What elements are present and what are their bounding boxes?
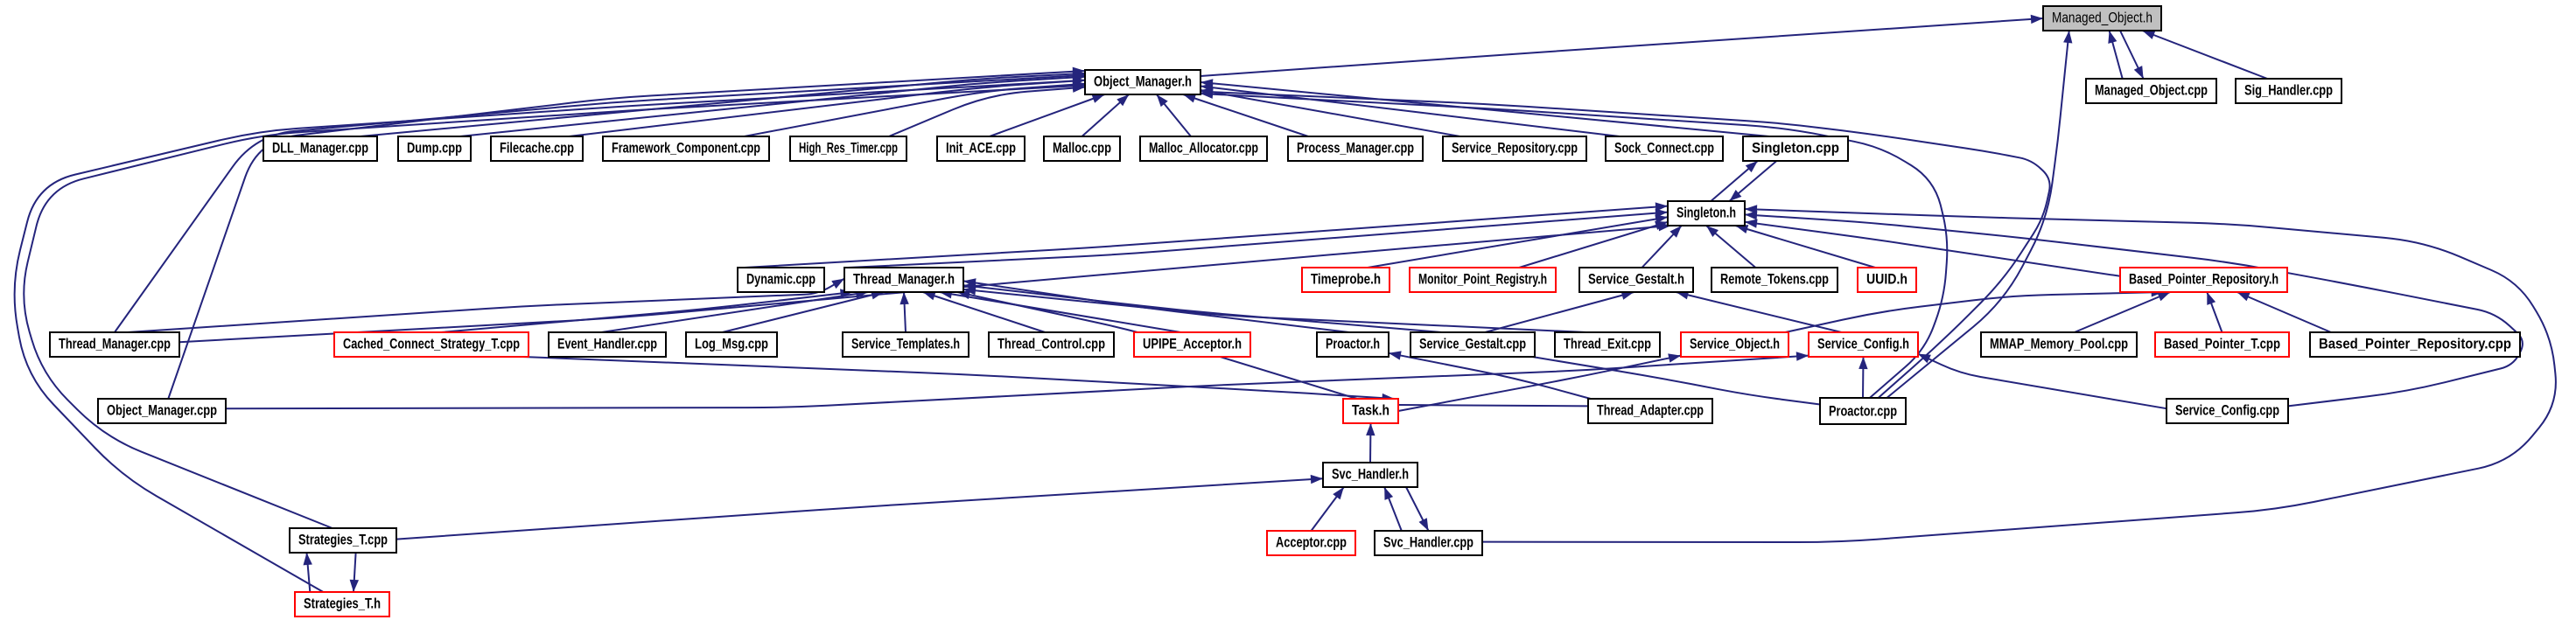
node Proactor.cpp — [1820, 398, 1906, 424]
svg-text:Task.h: Task.h — [1352, 402, 1389, 419]
svg-text:Cached_Connect_Strategy_T.cpp: Cached_Connect_Strategy_T.cpp — [343, 336, 520, 352]
svg-text:Event_Handler.cpp: Event_Handler.cpp — [557, 336, 657, 352]
svg-text:Singleton.cpp: Singleton.cpp — [1752, 140, 1839, 157]
wire Strategies_T.cpp to Svc_Handler.h — [396, 475, 1323, 540]
wire Managed_Object.h to Managed_Object.cpp — [2120, 31, 2144, 79]
node UUID.h — [1858, 268, 1916, 292]
wire Service_Gestalt.cpp to Thread_Manager.h — [963, 282, 1442, 332]
svg-text:Singleton.h: Singleton.h — [1676, 205, 1736, 221]
svg-text:Based_Pointer_T.cpp: Based_Pointer_T.cpp — [2164, 336, 2280, 352]
wire Service_Templates.h to Thread_Manager.h — [899, 292, 908, 332]
wire Cached_Connect_Strategy_T.cpp to Thread_Manager.h — [441, 289, 852, 332]
wire Object_Manager.cpp to Object_Manager.h — [168, 67, 1085, 399]
wire Task.h to Service_Object.h — [1398, 353, 1681, 411]
wire Task.h to Thread_Manager.h — [957, 290, 1357, 399]
node Singleton.cpp — [1743, 136, 1848, 161]
svg-text:Log_Msg.cpp: Log_Msg.cpp — [695, 336, 768, 352]
node Singleton.h — [1668, 201, 1745, 226]
node Remote_Tokens.cpp — [1711, 268, 1837, 292]
wire Service_Gestalt.cpp to Service_Gestalt.h — [1485, 291, 1634, 332]
node Service_Config.h — [1809, 332, 1918, 357]
node Sig_Handler.cpp — [2236, 79, 2341, 103]
node Object_Manager.h — [1085, 70, 1200, 94]
svg-text:Malloc.cpp: Malloc.cpp — [1053, 140, 1111, 157]
node Sock_Connect.cpp — [1606, 136, 1723, 161]
svg-text:Proactor.cpp: Proactor.cpp — [1829, 403, 1897, 420]
wire Based_Pointer_Repository.h to Singleton.h — [1745, 219, 2120, 276]
wire Svc_Handler.h to Svc_Handler.cpp — [1406, 487, 1429, 531]
svg-text:Framework_Component.cpp: Framework_Component.cpp — [612, 140, 760, 157]
wire Based_Pointer_Repository.cpp to Based_Pointer_Repository.h — [2237, 292, 2331, 332]
svg-text:Timeprobe.h: Timeprobe.h — [1311, 271, 1381, 288]
svg-text:Service_Gestalt.h: Service_Gestalt.h — [1588, 271, 1684, 288]
svg-text:Dump.cpp: Dump.cpp — [407, 140, 462, 157]
wire Thread_Manager.cpp to Object_Manager.h — [115, 72, 1085, 333]
node Malloc_Allocator.cpp — [1140, 136, 1267, 161]
wire Event_Handler.cpp to Thread_Manager.h — [601, 289, 868, 332]
wire Service_Config.h to Service_Gestalt.h — [1676, 290, 1842, 332]
wire Log_Msg.cpp to Thread_Manager.h — [723, 290, 884, 332]
node MMAP_Memory_Pool.cpp — [1981, 332, 2137, 357]
svg-text:Malloc_Allocator.cpp: Malloc_Allocator.cpp — [1149, 140, 1258, 157]
wire Proactor.h to Thread_Manager.h — [963, 278, 1349, 332]
svg-text:Thread_Exit.cpp: Thread_Exit.cpp — [1564, 336, 1651, 352]
wire Singleton.h to Singleton.cpp — [1711, 161, 1758, 201]
svg-text:Based_Pointer_Repository.cpp: Based_Pointer_Repository.cpp — [2319, 336, 2511, 352]
wire Monitor_Point_Registry.h to Singleton.h — [1519, 221, 1668, 268]
wire Remote_Tokens.cpp to Singleton.h — [1706, 226, 1755, 268]
svg-text:Object_Manager.cpp: Object_Manager.cpp — [107, 402, 217, 419]
node Strategies_T.cpp — [290, 528, 396, 553]
node Svc_Handler.h — [1323, 463, 1417, 487]
node Dynamic.cpp — [738, 268, 824, 292]
svg-text:DLL_Manager.cpp: DLL_Manager.cpp — [272, 140, 368, 157]
node Service_Templates.h — [843, 332, 969, 357]
node Cached_Connect_Strategy_T.cpp — [334, 332, 528, 357]
wire Singleton.cpp to Object_Manager.h — [1200, 79, 1769, 136]
wire Timeprobe.h to Singleton.h — [1368, 214, 1668, 268]
node Monitor_Point_Registry.h — [1410, 268, 1556, 292]
wire Object_Manager.cpp to Service_Config.h — [226, 352, 1809, 408]
svg-text:Thread_Control.cpp: Thread_Control.cpp — [997, 336, 1105, 352]
wire Thread_Manager.cpp to Singleton.h — [179, 222, 1671, 342]
node Managed_Object.h — [2043, 6, 2161, 31]
wire Init_ACE.cpp to Object_Manager.h — [990, 94, 1104, 136]
wire Strategies_T.h to Object_Manager.h — [15, 76, 1085, 592]
wire Service_Repository.cpp to Object_Manager.h — [1200, 87, 1460, 136]
svg-text:Sock_Connect.cpp: Sock_Connect.cpp — [1614, 140, 1714, 157]
wire Service_Config.cpp to Singleton.h — [1745, 211, 2523, 406]
node UPIPE_Acceptor.h — [1134, 332, 1250, 357]
node DLL_Manager.cpp — [263, 136, 377, 161]
node Service_Gestalt.cpp — [1410, 332, 1535, 357]
wire Svc_Handler.h to Task.h — [1366, 423, 1375, 463]
svg-text:Service_Config.cpp: Service_Config.cpp — [2175, 402, 2279, 419]
node Framework_Component.cpp — [603, 136, 769, 161]
wire Service_Gestalt.h to Singleton.h — [1642, 226, 1682, 268]
node Log_Msg.cpp — [686, 332, 777, 357]
node Filecache.cpp — [491, 136, 583, 161]
wire Task.h to Thread_Adapter.cpp link — [1398, 405, 1588, 406]
wire Based_Pointer_T.cpp to Based_Pointer_Repository.h — [2207, 292, 2222, 332]
node Thread_Manager.cpp — [50, 332, 179, 357]
wire Svc_Handler.cpp to Singleton.h — [1482, 205, 2556, 542]
svg-text:Strategies_T.h: Strategies_T.h — [304, 596, 381, 612]
wire Object_Manager.h to Managed_Object.h — [1200, 15, 2043, 76]
svg-text:Object_Manager.h: Object_Manager.h — [1094, 73, 1192, 90]
svg-text:Based_Pointer_Repository.h: Based_Pointer_Repository.h — [2129, 271, 2278, 288]
wire Dynamic.cpp to Singleton.h — [745, 202, 1668, 268]
node Thread_Adapter.cpp — [1588, 399, 1712, 423]
wire Strategies_T.cpp to Strategies_T.h — [350, 553, 359, 592]
svg-text:Strategies_T.cpp: Strategies_T.cpp — [298, 532, 388, 548]
wire MMAP_Memory_Pool.cpp to Based_Pointer_Repository.h — [2075, 292, 2171, 332]
node Proactor.h — [1317, 332, 1389, 357]
wire Malloc_Allocator.cpp to Object_Manager.h — [1157, 94, 1191, 136]
svg-text:High_Res_Timer.cpp: High_Res_Timer.cpp — [799, 140, 898, 157]
svg-text:MMAP_Memory_Pool.cpp: MMAP_Memory_Pool.cpp — [1990, 336, 2128, 352]
wire Acceptor.cpp to Svc_Handler.h — [1312, 487, 1344, 531]
wire Process_Manager.cpp to Object_Manager.h — [1183, 94, 1308, 137]
svg-text:UPIPE_Acceptor.h: UPIPE_Acceptor.h — [1143, 336, 1242, 352]
wire Proactor.cpp to Object_Manager.h second — [1200, 87, 2050, 398]
wire Proactor.cpp to Object_Manager.h — [1200, 90, 1947, 399]
svg-text:Managed_Object.cpp: Managed_Object.cpp — [2095, 82, 2208, 99]
node Service_Config.cpp — [2166, 399, 2288, 423]
node Managed_Object.cpp — [2086, 79, 2216, 103]
node Thread_Manager.h — [844, 268, 963, 292]
wire High_Res_Timer.cpp to Object_Manager.h — [889, 84, 1085, 137]
wire Dump.cpp to Object_Manager.h — [460, 73, 1086, 137]
node Object_Manager.cpp — [98, 399, 226, 423]
wire UPIPE_Acceptor.h to Thread_Manager.h — [940, 289, 1180, 332]
svg-text:Service_Gestalt.cpp: Service_Gestalt.cpp — [1419, 336, 1526, 352]
wire Svc_Handler.cpp to Svc_Handler.h — [1384, 487, 1402, 531]
svg-text:Monitor_Point_Registry.h: Monitor_Point_Registry.h — [1418, 271, 1547, 288]
node Service_Repository.cpp — [1443, 136, 1586, 161]
node Service_Gestalt.h — [1579, 268, 1693, 292]
svg-text:Init_ACE.cpp: Init_ACE.cpp — [946, 140, 1016, 157]
wire Thread_Manager.cpp to Thread_Manager.h — [128, 279, 844, 332]
wire Thread_Exit.cpp to Thread_Manager.h — [963, 286, 1586, 332]
node Strategies_T.h — [295, 592, 389, 617]
wire Thread_Adapter.cpp to Proactor.h — [1389, 351, 1591, 399]
svg-text:Thread_Manager.cpp: Thread_Manager.cpp — [59, 336, 171, 352]
svg-text:Sig_Handler.cpp: Sig_Handler.cpp — [2244, 82, 2333, 99]
svg-text:Dynamic.cpp: Dynamic.cpp — [746, 271, 815, 288]
wire Sock_Connect.cpp to Object_Manager.h — [1200, 83, 1620, 136]
node Process_Manager.cpp — [1288, 136, 1423, 161]
wire Thread_Control.cpp to Thread_Manager.h — [923, 291, 1046, 332]
node Malloc.cpp — [1044, 136, 1120, 161]
node Thread_Exit.cpp — [1555, 332, 1660, 357]
wire DLL_Manager.cpp to Object_Manager.h — [360, 69, 1086, 136]
node Dump.cpp — [398, 136, 471, 161]
svg-text:Thread_Adapter.cpp: Thread_Adapter.cpp — [1597, 402, 1704, 419]
node Timeprobe.h — [1302, 268, 1389, 292]
wire Strategies_T.h to Strategies_T.cpp — [304, 553, 312, 592]
svg-text:Proactor.h: Proactor.h — [1326, 336, 1380, 352]
wire Strategies_T.cpp to Object_Manager.h — [24, 81, 1085, 528]
svg-text:Managed_Object.h: Managed_Object.h — [2052, 10, 2152, 26]
node Based_Pointer_T.cpp — [2155, 332, 2289, 357]
svg-text:Service_Config.h: Service_Config.h — [1817, 336, 1909, 352]
svg-text:Acceptor.cpp: Acceptor.cpp — [1276, 534, 1347, 551]
node Acceptor.cpp — [1267, 531, 1355, 555]
wire Thread_Manager.h to Singleton.h — [848, 209, 1668, 268]
wire Framework_Component.cpp to Object_Manager.h — [745, 80, 1086, 137]
svg-text:Service_Repository.cpp: Service_Repository.cpp — [1452, 140, 1578, 157]
wire Managed_Object.cpp to Managed_Object.h — [2108, 31, 2122, 79]
wire Cached_Connect_Strategy_T.cpp to Task.h — [522, 357, 1394, 402]
svg-text:Service_Templates.h: Service_Templates.h — [851, 336, 960, 352]
wire Proactor.cpp to Service_Config.h — [1858, 357, 1867, 398]
node Based_Pointer_Repository.cpp — [2310, 332, 2520, 357]
node Svc_Handler.cpp — [1375, 531, 1482, 555]
wire Service_Config.cpp to Service_Config.h — [1918, 354, 2166, 409]
node Based_Pointer_Repository.h — [2120, 268, 2287, 292]
wire Service_Object.h to Based_Pointer_Repository.h — [1785, 288, 2163, 332]
wire Sig_Handler.cpp to Managed_Object.h — [2142, 31, 2267, 79]
wire UUID.h to Singleton.h — [1735, 225, 1875, 268]
node Task.h — [1343, 399, 1398, 423]
svg-text:UUID.h: UUID.h — [1866, 271, 1907, 288]
node Init_ACE.cpp — [937, 136, 1025, 161]
svg-text:Process_Manager.cpp: Process_Manager.cpp — [1297, 140, 1414, 157]
wire Malloc.cpp to Object_Manager.h — [1082, 94, 1130, 136]
wire Proactor.cpp to Managed_Object.h — [1886, 31, 2072, 398]
svg-text:Remote_Tokens.cpp: Remote_Tokens.cpp — [1720, 271, 1829, 288]
wire Proactor.cpp to Service_Gestalt.cpp link — [1532, 357, 1820, 405]
node Service_Object.h — [1681, 332, 1788, 357]
svg-text:Thread_Manager.h: Thread_Manager.h — [853, 271, 955, 288]
svg-text:Svc_Handler.h: Svc_Handler.h — [1332, 466, 1409, 483]
wire Singleton.cpp to Singleton.h — [1729, 161, 1776, 201]
node Thread_Control.cpp — [989, 332, 1114, 357]
svg-text:Service_Object.h: Service_Object.h — [1690, 336, 1780, 352]
svg-text:Filecache.cpp: Filecache.cpp — [500, 140, 574, 157]
node High_Res_Timer.cpp — [790, 136, 906, 161]
node Event_Handler.cpp — [549, 332, 666, 357]
svg-text:Svc_Handler.cpp: Svc_Handler.cpp — [1383, 534, 1473, 551]
wire Filecache.cpp to Object_Manager.h — [569, 77, 1085, 137]
